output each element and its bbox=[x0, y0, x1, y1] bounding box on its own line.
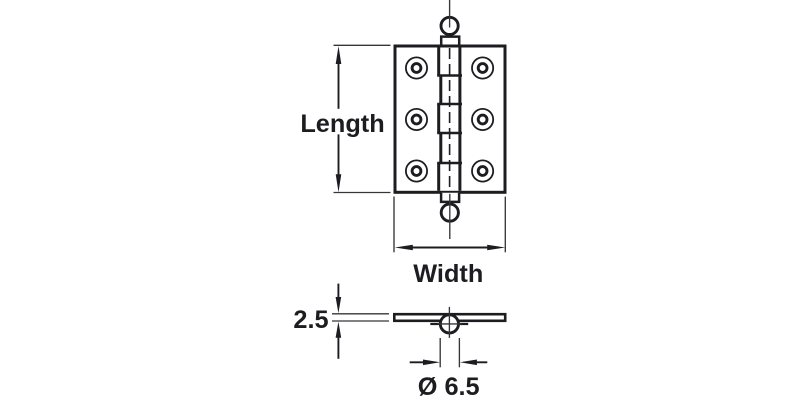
centerline above top finial bbox=[449, 0, 451, 28]
2.5 arrowhead down bbox=[336, 297, 342, 313]
barrel circle side view bbox=[440, 315, 458, 333]
2.5 arrowhead up bbox=[336, 322, 342, 338]
dia 6.5 arrow right line bbox=[475, 361, 487, 363]
Length arrowhead up bbox=[336, 46, 342, 64]
Width dimension line bbox=[409, 247, 491, 249]
dia 6.5 extension line left bbox=[439, 338, 441, 367]
Width arrowhead right bbox=[487, 245, 505, 251]
svg-text:2.5: 2.5 bbox=[293, 306, 328, 334]
knuckle barrel left edge segment 2 bbox=[439, 76, 442, 105]
barrel horizontal centerline bbox=[438, 323, 462, 325]
dia 6.5 extension line right bbox=[458, 338, 460, 367]
barrel equator segment left bbox=[430, 323, 440, 325]
screw hole bottom-right bbox=[472, 160, 493, 181]
knuckle barrel left edge segment 3 bbox=[437, 104, 440, 133]
knuckle barrel left edge segment 5 bbox=[437, 163, 440, 191]
2.5 extension line lower bbox=[332, 320, 389, 322]
ball finial bottom bbox=[441, 204, 458, 221]
screw hole top-right bbox=[472, 57, 493, 78]
svg-text:Ø 6.5: Ø 6.5 bbox=[418, 373, 480, 400]
Width arrowhead left bbox=[395, 245, 413, 251]
svg-text:Length: Length bbox=[300, 110, 384, 138]
Width extension line left bbox=[393, 197, 395, 253]
screw hole bottom-left bbox=[406, 160, 427, 181]
2.5 arrow bottom line bbox=[337, 336, 339, 359]
2.5 arrow top line bbox=[337, 284, 339, 299]
knuckle barrel right edge bbox=[458, 48, 461, 191]
dia 6.5 arrowhead left-pointing bbox=[460, 360, 477, 366]
dia 6.5 arrow left line bbox=[410, 361, 425, 363]
knuckle divider 3 bbox=[437, 132, 462, 135]
knuckle barrel left edge segment 4 bbox=[439, 133, 442, 163]
knuckle divider 2 bbox=[437, 103, 462, 106]
barrel vertical centerline bbox=[448, 307, 450, 338]
Length arrowhead down bbox=[336, 174, 342, 192]
dia 6.5 arrowhead right-pointing bbox=[423, 360, 440, 366]
2.5 extension line upper bbox=[332, 313, 389, 315]
hinge pin dashed centerline bbox=[449, 48, 451, 191]
Width extension line right bbox=[504, 197, 506, 253]
centerline below bottom finial bbox=[449, 194, 451, 239]
knuckle divider 1 bbox=[437, 74, 462, 77]
barrel equator segment right bbox=[459, 323, 468, 325]
hinge leaf plate (front view) bbox=[395, 46, 505, 192]
neck above bottom finial bbox=[441, 193, 459, 202]
leaf plate side view bbox=[394, 314, 505, 321]
screw hole mid-left bbox=[406, 109, 427, 130]
Length extension line top bbox=[334, 44, 391, 46]
knuckle barrel left edge segment 1 bbox=[437, 48, 440, 76]
screw hole mid-right bbox=[472, 109, 493, 130]
screw hole top-left bbox=[406, 57, 427, 78]
neck below top finial bbox=[441, 37, 459, 46]
Length dimension line lower part bbox=[338, 134, 340, 178]
svg-text:Width: Width bbox=[413, 260, 483, 288]
knuckle divider 4 bbox=[437, 162, 462, 165]
Length dimension line upper part bbox=[338, 60, 340, 109]
ball finial top bbox=[441, 17, 458, 34]
Length extension line bottom bbox=[334, 192, 391, 194]
